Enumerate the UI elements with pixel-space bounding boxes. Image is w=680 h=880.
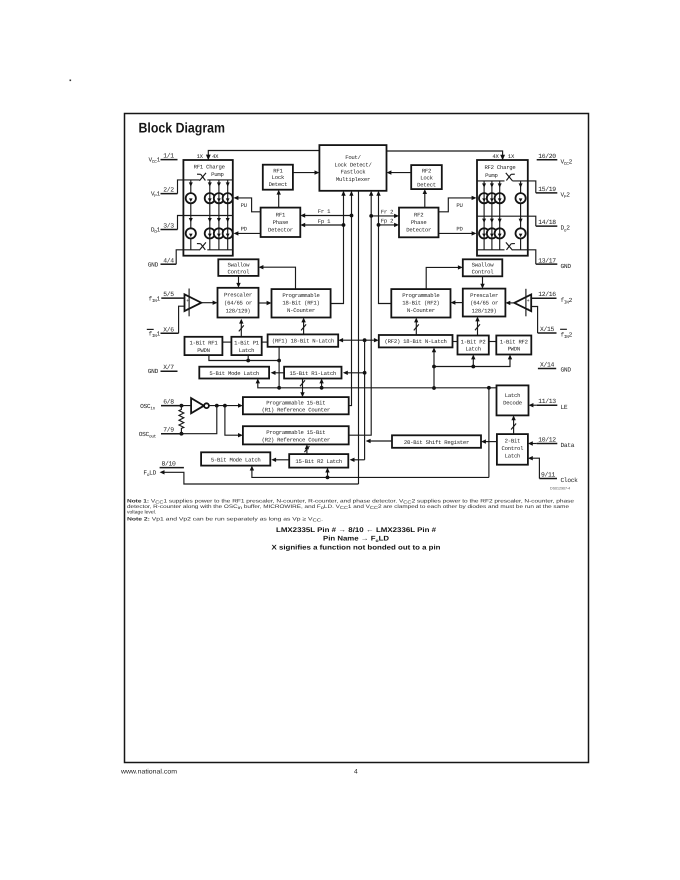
svg-text:Clock: Clock	[561, 477, 579, 484]
svg-text:4: 4	[354, 769, 358, 776]
wire PU pump2	[439, 198, 474, 212]
fin1 buffer bypass line	[188, 289, 190, 317]
svg-text:Programmable 15-Bit: Programmable 15-Bit	[266, 429, 325, 436]
svg-text:GND: GND	[148, 261, 159, 268]
wire OSCout	[161, 406, 217, 434]
svg-text:X/6: X/6	[163, 326, 174, 333]
wire bus corner to R2 latch	[353, 459, 365, 461]
svg-text:20-Bit Shift Register: 20-Bit Shift Register	[404, 439, 469, 446]
svg-text:2/2: 2/2	[163, 187, 174, 194]
svg-text:128/129): 128/129)	[226, 307, 251, 314]
stub prescaler1 to P1 latch	[240, 322, 242, 337]
svg-text:128/129): 128/129)	[472, 307, 497, 314]
2-bit control latch box	[497, 434, 528, 465]
stray dot top-left	[70, 80, 72, 82]
RF2 18-bit N-latch box	[379, 335, 453, 347]
svg-text:Detector: Detector	[406, 226, 431, 233]
svg-text:X signifies a function not bon: X signifies a function not bonded out to…	[272, 545, 441, 552]
pump1 Do rail	[178, 216, 233, 230]
svg-text:(R1) Reference Counter: (R1) Reference Counter	[262, 407, 330, 414]
svg-text:4/4: 4/4	[163, 257, 174, 264]
fin2 buffer bypass line	[525, 289, 527, 317]
15-bit R2 latch box	[289, 454, 348, 468]
oscillator inverter triangle	[191, 398, 204, 413]
N-counter RF2 box	[391, 289, 450, 317]
wire phase det 1 up to lock detect 1	[278, 193, 280, 208]
svg-text:1-Bit RF2: 1-Bit RF2	[500, 338, 528, 345]
pump2 bottom switch	[506, 242, 513, 250]
svg-text:4X: 4X	[492, 153, 499, 160]
svg-text:Fr 2: Fr 2	[381, 208, 393, 215]
svg-text:Latch: Latch	[239, 347, 255, 354]
svg-text:1X: 1X	[197, 153, 204, 160]
stub N-counter1 to N-latch1	[303, 321, 305, 335]
fin1 input buffer triangle	[185, 294, 202, 311]
svg-text:DS012907-4: DS012907-4	[550, 487, 570, 491]
svg-text:Data: Data	[561, 442, 575, 449]
inverter bubble	[204, 403, 209, 408]
Fp2 vertical bus	[379, 194, 392, 304]
Fr2 wire to phase det 2	[371, 215, 395, 217]
svg-text:2-Bit: 2-Bit	[505, 438, 521, 445]
svg-text:PD: PD	[456, 226, 463, 233]
pump1 column single top	[190, 180, 192, 216]
svg-text:GND: GND	[148, 368, 159, 375]
svg-text:Phase: Phase	[411, 219, 427, 226]
wire up into R1 latch bottom	[321, 382, 323, 388]
svg-text:Control: Control	[472, 268, 495, 275]
pump1 top switch	[199, 173, 206, 181]
svg-text:15/19: 15/19	[538, 186, 556, 193]
pump1 current source circle bottom-left	[186, 228, 196, 238]
svg-text:11/13: 11/13	[538, 398, 556, 405]
stub N-counter2 to N-latch2	[415, 321, 417, 336]
5-bit mode latch bottom box	[201, 452, 270, 465]
wire Data to control latch	[531, 443, 536, 445]
Fp1 wire to phase det 1	[304, 224, 344, 226]
svg-text:(R2) Reference Counter: (R2) Reference Counter	[262, 436, 330, 443]
svg-text:RF2 Charge: RF2 Charge	[484, 164, 515, 171]
svg-text:Fp 1: Fp 1	[318, 218, 331, 225]
fin2 input buffer triangle	[514, 295, 531, 312]
stub control latch up to latch decode	[513, 419, 515, 435]
svg-text:1/1: 1/1	[163, 153, 174, 160]
wire PD pump2	[439, 232, 474, 234]
pump1 bottom switch	[199, 242, 206, 250]
svg-text:-: -	[527, 306, 530, 312]
pump1 triple sources top	[209, 180, 211, 216]
RF1 lock detect box	[263, 165, 293, 190]
FoLD output wire	[163, 472, 358, 484]
svg-text:(RF2) 18-Bit N-Latch: (RF2) 18-Bit N-Latch	[385, 338, 447, 345]
shift register bus vertical	[364, 340, 366, 460]
Fr1 wire to phase det 1	[304, 215, 352, 217]
prescaler right box	[463, 289, 506, 317]
wire inverter output down to R2 ref counter	[225, 406, 240, 436]
svg-text:18-Bit (RF2): 18-Bit (RF2)	[402, 300, 439, 307]
pump2 triple sources top	[483, 181, 485, 216]
wire inverter output to R1 ref counter	[209, 405, 240, 407]
svg-text:6/8: 6/8	[163, 399, 174, 406]
svg-text:Latch: Latch	[505, 392, 521, 399]
wire fin1 buffer to prescaler1	[201, 302, 214, 304]
page frame	[125, 114, 589, 763]
1-Bit RF2 PWDN box	[496, 336, 531, 355]
wire lock detect 1 to multiplexer	[293, 172, 316, 174]
wire PD pump1	[237, 232, 261, 234]
wire N-latch2 to P2	[453, 341, 458, 343]
swallow control left box	[218, 259, 258, 276]
svg-text:5-Bit Mode Latch: 5-Bit Mode Latch	[209, 370, 259, 377]
RF2 lock detect box	[411, 165, 442, 189]
svg-text:Swallow: Swallow	[472, 261, 495, 268]
wire lock detect 2 to multiplexer	[390, 172, 411, 174]
bottom program wire y=477.4	[252, 469, 489, 478]
svg-text:12/16: 12/16	[538, 291, 556, 298]
svg-text:Programmable 15-Bit: Programmable 15-Bit	[266, 400, 325, 407]
wire N-counter2 top to swallow control right	[426, 267, 459, 289]
prescaler left box	[218, 288, 259, 318]
svg-text:4X: 4X	[212, 153, 219, 160]
stub R1 latch down to R1 counter	[302, 379, 304, 395]
crystal feedback resistor	[179, 406, 184, 434]
N-latch connector wire	[342, 339, 376, 341]
wire P2 to PWDN2	[489, 341, 497, 343]
svg-text:+: +	[186, 298, 189, 304]
svg-text:3/3: 3/3	[163, 223, 174, 230]
svg-text:GND: GND	[561, 367, 572, 374]
svg-text:PU: PU	[456, 202, 462, 209]
svg-text:N-Counter: N-Counter	[407, 307, 435, 314]
svg-text:GND: GND	[561, 263, 572, 270]
right latch row bottom wires	[434, 358, 510, 367]
svg-text:Control: Control	[502, 445, 525, 452]
svg-text:Note 2: Vp1 and Vp2 can be run: Note 2: Vp1 and Vp2 can be run separatel…	[127, 517, 323, 523]
svg-text:Prescaler: Prescaler	[224, 291, 252, 298]
pump1 GND rail	[176, 250, 199, 264]
arrow into RF2 charge pump top	[500, 155, 505, 161]
wire P1 to N-latch1	[262, 341, 268, 343]
svg-text:Block Diagram: Block Diagram	[139, 119, 226, 135]
svg-text:PWDN: PWDN	[197, 347, 209, 354]
svg-text:14/18: 14/18	[538, 219, 556, 226]
svg-text:Swallow: Swallow	[228, 261, 251, 268]
left latch row bottom wires	[209, 355, 279, 360]
svg-text:Control: Control	[228, 268, 251, 275]
R2 reference counter box	[243, 426, 349, 444]
wire fin2 buffer to prescaler2	[509, 302, 514, 304]
svg-text:Detect: Detect	[269, 181, 288, 188]
svg-text:(64/65 or: (64/65 or	[224, 299, 252, 306]
svg-text:Pump: Pump	[485, 172, 497, 179]
svg-text:(64/65 or: (64/65 or	[470, 300, 498, 307]
svg-text:voltage level.: voltage level.	[127, 510, 156, 516]
svg-text:5/5: 5/5	[163, 291, 174, 298]
20-bit shift register box	[392, 435, 481, 448]
svg-text:Decode: Decode	[503, 400, 522, 407]
svg-text:13/17: 13/17	[538, 257, 556, 264]
svg-text:Lock Detect/: Lock Detect/	[334, 161, 372, 168]
svg-text:Multiplexer: Multiplexer	[336, 176, 370, 183]
svg-text:RF2: RF2	[414, 211, 423, 218]
wire prescaler2 to N-counter2	[454, 302, 463, 304]
pump2 single source bottom	[520, 216, 522, 250]
N-latch2 bottom vertical	[433, 351, 435, 389]
svg-text:www.national.com: www.national.com	[120, 769, 178, 776]
Fr1 vertical bus	[349, 194, 352, 406]
svg-text:RF1: RF1	[276, 211, 286, 218]
svg-text:X/7: X/7	[163, 364, 174, 371]
svg-text:1X: 1X	[508, 153, 515, 160]
1-Bit P1 latch box	[231, 337, 261, 355]
svg-text:1-Bit P2: 1-Bit P2	[461, 338, 486, 345]
wire R2 latch to mode latch bottom	[275, 459, 290, 461]
wire OSCin to inverter	[161, 405, 191, 407]
svg-text:RF1 Charge: RF1 Charge	[194, 164, 225, 171]
pump2 top switch	[506, 173, 513, 181]
svg-text:detector, R-counter along with: detector, R-counter along with the OSCin…	[127, 504, 569, 510]
svg-text:15-Bit R1-Latch: 15-Bit R1-Latch	[289, 370, 336, 377]
svg-text:-: -	[186, 306, 189, 312]
wire phase det 2 up to lock detect 2	[424, 192, 426, 207]
wire top rail left (pump1 to multiplexer)	[208, 151, 319, 158]
svg-text:16/20: 16/20	[538, 153, 556, 160]
program distribution wire y=388	[258, 381, 497, 388]
svg-text:Programmable: Programmable	[282, 292, 319, 299]
charge pump RF2 box	[477, 160, 528, 256]
Fout vertical bus	[358, 191, 360, 484]
svg-text:+: +	[527, 298, 530, 304]
1-Bit RF1 PWDN box	[185, 337, 223, 355]
svg-text:1-Bit RF1: 1-Bit RF1	[190, 340, 219, 347]
pump2 Vp rail	[512, 181, 535, 193]
svg-text:Fastlock: Fastlock	[341, 169, 367, 176]
wire Clock to control latch	[531, 458, 539, 478]
pump1 triple sources bottom	[209, 216, 211, 250]
5-bit mode latch top box	[199, 367, 269, 379]
pump2 Do rail	[477, 216, 536, 226]
svg-text:Latch: Latch	[465, 346, 481, 353]
pump1 Vp rail	[178, 180, 200, 194]
pump2 single source top	[520, 181, 522, 216]
svg-text:18-Bit (RF1): 18-Bit (RF1)	[282, 300, 319, 307]
stub prescaler2 to P2 latch	[477, 320, 479, 336]
pump2 triple sources bottom	[483, 216, 485, 250]
Fp2 wire to phase det 2	[379, 224, 396, 226]
svg-text:8/10: 8/10	[162, 461, 176, 468]
svg-text:Fp 2: Fp 2	[381, 218, 393, 225]
R1 reference counter box	[243, 397, 349, 414]
svg-text:PU: PU	[241, 202, 247, 209]
wire bus to R1 latch	[346, 372, 364, 374]
svg-text:Fout/: Fout/	[345, 154, 361, 161]
multiplexer box	[319, 145, 386, 191]
svg-text:LMX2335L Pin # → 8/10 ← LMX233: LMX2335L Pin # → 8/10 ← LMX2336L Pin #	[276, 527, 436, 534]
RF2 phase detector box	[399, 208, 439, 238]
15-bit R1 latch box	[284, 367, 341, 379]
N-latch1 bottom vertical	[278, 347, 280, 388]
latch decode box	[497, 385, 529, 415]
svg-text:Prescaler: Prescaler	[470, 292, 498, 299]
svg-text:LE: LE	[561, 404, 568, 411]
pump2 GND rail	[513, 250, 536, 264]
svg-text:X/15: X/15	[540, 326, 554, 333]
wire PU pump1	[237, 198, 261, 212]
svg-text:PWDN: PWDN	[508, 346, 520, 353]
svg-text:X/14: X/14	[540, 362, 554, 369]
wire control latch to shift register	[485, 441, 497, 443]
wire shift register to bus	[369, 440, 392, 442]
stub R2 latch up to R2 counter	[306, 448, 308, 455]
1-Bit P2 latch box	[458, 336, 489, 355]
charge pump RF1 box	[183, 160, 232, 256]
RF1 phase detector box	[261, 208, 301, 237]
svg-text:PD: PD	[241, 226, 248, 233]
wire PWDN1 to P1	[222, 341, 231, 343]
N-counter RF1 box	[272, 289, 331, 317]
svg-text:Pin Name → FoLD: Pin Name → FoLD	[323, 536, 389, 543]
svg-text:Fr 1: Fr 1	[318, 208, 331, 215]
svg-text:9/11: 9/11	[541, 472, 555, 479]
svg-text:Pump: Pump	[211, 171, 223, 178]
arrow into RF1 charge pump top	[206, 155, 211, 161]
wire fIN1-bar to buffer	[179, 306, 185, 333]
RF1 18-bit N-latch box	[268, 334, 339, 346]
svg-text:N-Counter: N-Counter	[287, 307, 315, 314]
Fr2 vertical bus	[349, 194, 372, 435]
wire R1 latch to mode latch	[274, 372, 284, 374]
svg-text:10/12: 10/12	[538, 437, 556, 444]
svg-text:5-Bit Mode Latch: 5-Bit Mode Latch	[211, 456, 261, 463]
wire fIN2-bar to buffer	[531, 307, 537, 334]
svg-text:Programmable: Programmable	[402, 292, 439, 299]
wire swallow2 down to prescaler2	[482, 276, 484, 285]
pump1 column single bottom	[190, 216, 192, 250]
svg-text:15-Bit R2 Latch: 15-Bit R2 Latch	[295, 458, 342, 465]
pump1 current source circle top-left	[186, 193, 196, 203]
Fp1 vertical bus	[331, 194, 344, 304]
wire prescaler1 to N-counter1	[259, 302, 269, 304]
svg-text:Latch: Latch	[505, 453, 521, 460]
wire LE to latch decode	[532, 404, 537, 406]
svg-text:Detect: Detect	[417, 181, 436, 188]
wire top rail right (multiplexer to pump2)	[387, 151, 503, 158]
svg-text:Detector: Detector	[268, 226, 293, 233]
svg-text:Phase: Phase	[273, 219, 289, 226]
svg-text:7/9: 7/9	[163, 427, 174, 434]
wire N-counter1 top to swallow control left	[262, 267, 296, 289]
svg-text:(RF1) 18-Bit N-Latch: (RF1) 18-Bit N-Latch	[272, 338, 334, 345]
wire swallow1 down to prescaler1	[238, 276, 240, 285]
swallow control right box	[463, 259, 503, 276]
svg-text:1-Bit P1: 1-Bit P1	[234, 340, 260, 347]
wire up into R2 latch bottom	[327, 471, 329, 478]
